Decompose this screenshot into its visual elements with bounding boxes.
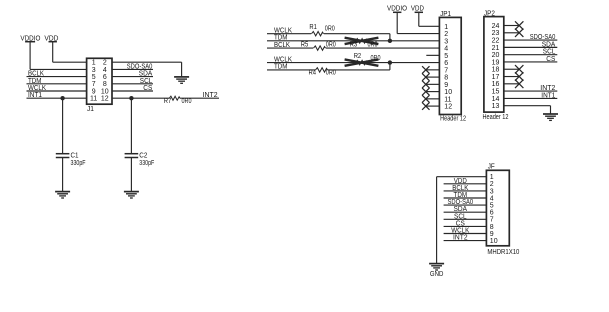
svg-text:13: 13 bbox=[492, 103, 500, 110]
svg-text:SCL: SCL bbox=[454, 213, 467, 220]
svg-text:INT1: INT1 bbox=[28, 92, 42, 99]
svg-text:GND: GND bbox=[430, 271, 444, 278]
svg-text:1: 1 bbox=[444, 24, 448, 31]
svg-text:SDA: SDA bbox=[542, 41, 556, 48]
svg-text:5: 5 bbox=[92, 74, 96, 81]
svg-text:7: 7 bbox=[490, 217, 494, 224]
svg-text:10: 10 bbox=[490, 238, 498, 245]
svg-text:CS: CS bbox=[143, 85, 152, 92]
svg-text:TDM: TDM bbox=[28, 78, 42, 85]
svg-text:R4: R4 bbox=[309, 70, 317, 77]
svg-text:8: 8 bbox=[490, 224, 494, 231]
svg-text:21: 21 bbox=[492, 45, 500, 52]
svg-text:3: 3 bbox=[490, 188, 494, 195]
svg-text:R3: R3 bbox=[350, 42, 358, 49]
svg-text:C2: C2 bbox=[139, 153, 147, 160]
svg-text:INT2: INT2 bbox=[540, 85, 555, 92]
svg-text:9: 9 bbox=[490, 231, 494, 238]
svg-text:SDO-SA0: SDO-SA0 bbox=[530, 34, 556, 41]
svg-text:11: 11 bbox=[444, 96, 451, 103]
svg-text:SDA: SDA bbox=[139, 71, 153, 78]
svg-text:4: 4 bbox=[103, 67, 107, 74]
svg-text:WCLK: WCLK bbox=[274, 56, 292, 63]
svg-text:JP1: JP1 bbox=[440, 11, 451, 18]
svg-text:6: 6 bbox=[444, 60, 448, 67]
svg-text:2: 2 bbox=[444, 31, 448, 38]
svg-text:R7: R7 bbox=[164, 98, 172, 105]
svg-text:1: 1 bbox=[92, 60, 96, 67]
svg-text:6: 6 bbox=[103, 74, 107, 81]
svg-text:MHDR1X10: MHDR1X10 bbox=[487, 249, 519, 256]
svg-text:0R0: 0R0 bbox=[325, 26, 335, 33]
svg-text:17: 17 bbox=[492, 74, 500, 81]
svg-text:330pF: 330pF bbox=[71, 160, 86, 167]
svg-text:10: 10 bbox=[101, 88, 109, 95]
svg-text:20: 20 bbox=[492, 52, 500, 59]
svg-text:TDM: TDM bbox=[454, 192, 468, 199]
svg-text:19: 19 bbox=[492, 59, 500, 66]
svg-text:10: 10 bbox=[444, 89, 452, 96]
svg-text:SCL: SCL bbox=[140, 78, 153, 85]
svg-text:4: 4 bbox=[490, 195, 494, 202]
svg-text:0R0: 0R0 bbox=[182, 98, 192, 105]
svg-text:5: 5 bbox=[444, 53, 448, 60]
svg-text:24: 24 bbox=[492, 23, 500, 30]
svg-text:TDM: TDM bbox=[274, 64, 288, 71]
svg-text:Header 12: Header 12 bbox=[440, 115, 466, 122]
svg-text:2: 2 bbox=[490, 181, 494, 188]
svg-text:WCLK: WCLK bbox=[28, 85, 46, 92]
svg-text:VDD: VDD bbox=[454, 178, 467, 185]
svg-text:14: 14 bbox=[492, 96, 500, 103]
svg-text:5: 5 bbox=[490, 203, 494, 210]
svg-text:3: 3 bbox=[92, 67, 96, 74]
svg-text:7: 7 bbox=[92, 81, 96, 88]
svg-text:TDM: TDM bbox=[274, 35, 288, 42]
svg-text:0R0: 0R0 bbox=[371, 55, 381, 62]
svg-text:4: 4 bbox=[444, 46, 448, 53]
svg-text:0R0: 0R0 bbox=[326, 42, 336, 49]
svg-text:18: 18 bbox=[492, 67, 500, 74]
svg-text:1: 1 bbox=[490, 174, 494, 181]
svg-text:JP2: JP2 bbox=[484, 10, 495, 17]
svg-text:J1: J1 bbox=[87, 106, 94, 113]
svg-text:INT1: INT1 bbox=[541, 92, 555, 99]
svg-text:16: 16 bbox=[492, 81, 500, 88]
svg-text:2: 2 bbox=[103, 60, 107, 67]
svg-text:12: 12 bbox=[444, 104, 452, 111]
svg-text:R5: R5 bbox=[301, 42, 309, 49]
svg-text:R2: R2 bbox=[354, 53, 362, 60]
svg-text:JF: JF bbox=[488, 164, 495, 171]
svg-text:BCLK: BCLK bbox=[28, 71, 44, 78]
svg-text:R1: R1 bbox=[309, 24, 317, 31]
svg-text:330pF: 330pF bbox=[139, 160, 154, 167]
svg-text:INT2: INT2 bbox=[453, 235, 468, 242]
svg-text:8: 8 bbox=[444, 75, 448, 82]
svg-text:SCL: SCL bbox=[543, 49, 556, 56]
svg-text:0R0: 0R0 bbox=[326, 70, 336, 77]
svg-text:23: 23 bbox=[492, 30, 500, 37]
svg-text:C1: C1 bbox=[71, 153, 79, 160]
svg-text:INT2: INT2 bbox=[203, 92, 218, 99]
svg-text:22: 22 bbox=[492, 37, 500, 44]
svg-text:11: 11 bbox=[90, 96, 97, 103]
svg-text:Header 12: Header 12 bbox=[483, 114, 509, 121]
svg-text:BCLK: BCLK bbox=[452, 185, 468, 192]
svg-text:7: 7 bbox=[444, 67, 448, 74]
svg-text:15: 15 bbox=[492, 89, 500, 96]
svg-text:3: 3 bbox=[444, 38, 448, 45]
svg-text:BCLK: BCLK bbox=[274, 42, 290, 49]
svg-text:6: 6 bbox=[490, 210, 494, 217]
svg-text:SDO-SA0: SDO-SA0 bbox=[127, 63, 153, 70]
svg-text:0R0: 0R0 bbox=[368, 42, 378, 49]
svg-text:WCLK: WCLK bbox=[451, 228, 469, 235]
svg-text:CS: CS bbox=[546, 56, 555, 63]
svg-text:8: 8 bbox=[103, 81, 107, 88]
svg-text:SDO-SA0: SDO-SA0 bbox=[448, 199, 474, 206]
svg-text:9: 9 bbox=[92, 88, 96, 95]
svg-text:CS: CS bbox=[456, 220, 465, 227]
svg-text:12: 12 bbox=[101, 96, 109, 103]
svg-text:WCLK: WCLK bbox=[274, 28, 292, 35]
svg-text:SDA: SDA bbox=[454, 206, 468, 213]
svg-text:9: 9 bbox=[444, 82, 448, 89]
